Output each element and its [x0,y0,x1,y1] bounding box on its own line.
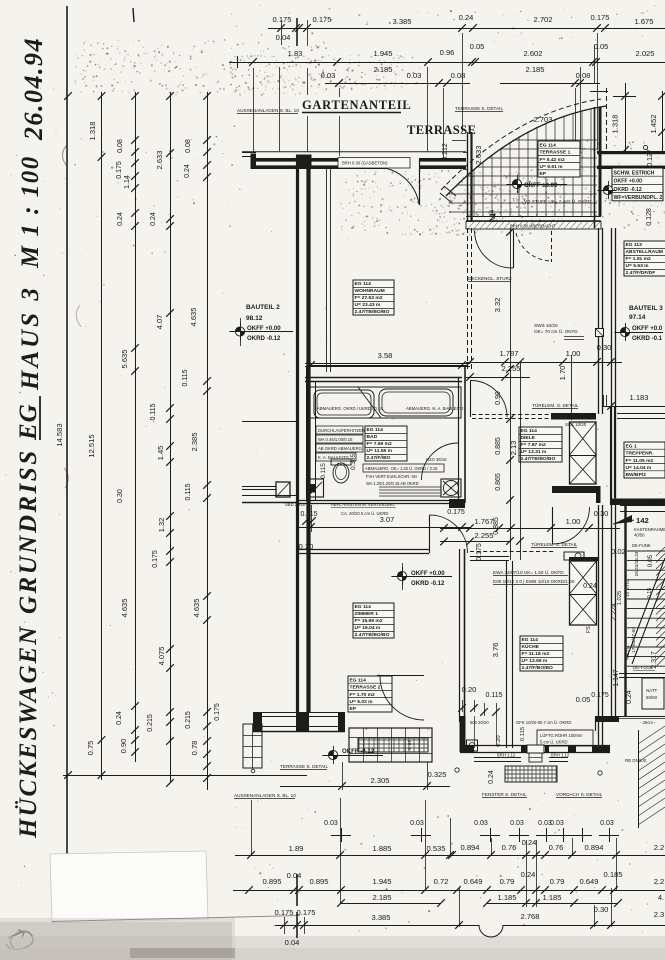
svg-text:NATT: NATT [646,688,658,693]
svg-text:OKRD -0.12: OKRD -0.12 [411,580,445,587]
svg-text:GFK 10/20-05 7 cm Ü. OKRD: GFK 10/20-05 7 cm Ü. OKRD [516,720,571,725]
bath left lining [306,366,308,500]
window kastenrahmen lines [620,505,665,507]
svg-text:ZIMMER 1: ZIMMER 1 [355,611,379,617]
svg-text:26.04.94: 26.04.94 [19,37,48,141]
svg-text:FENSTER S. DETAIL: FENSTER S. DETAIL [482,792,527,797]
svg-text:2.47/F/DF/DF: 2.47/F/DF/DF [626,270,656,276]
left dimension chain 4.07 [170,92,172,783]
svg-text:0.04: 0.04 [276,33,291,42]
terrace OKFF symbol [512,179,521,188]
garden boundary line top right [590,91,608,93]
paper wrinkle arcs [63,146,67,165]
svg-text:0.24: 0.24 [488,770,495,784]
bath install band [310,387,461,418]
left dimension chain 12.515 [101,92,103,780]
terrace french door solid leaf [513,230,515,268]
svg-text:2.702: 2.702 [533,15,552,24]
svg-text:5 cm Ü. UKRD: 5 cm Ü. UKRD [540,740,568,745]
zimmer right wall corner block [460,716,466,752]
svg-text:3.76: 3.76 [491,643,500,658]
svg-text:2.633: 2.633 [474,145,483,164]
svg-text:1.185: 1.185 [542,893,561,902]
bottom small chain crosses row [331,835,351,837]
svg-text:OKFF ±0.00: OKFF ±0.00 [524,182,558,189]
svg-text:OKFF +0.00: OKFF +0.00 [411,570,445,577]
svg-text:U= 6.02 m: U= 6.02 m [350,699,374,705]
svg-text:0.649: 0.649 [579,877,598,886]
svg-text:0.175: 0.175 [476,543,483,561]
svg-text:0.03: 0.03 [600,820,614,827]
svg-text:WA 0.45/1.00/0.15: WA 0.45/1.00/0.15 [318,437,353,442]
diele room table [519,427,562,462]
svg-text:9 STG.: 9 STG. [625,644,631,660]
zimmer terrace door leaf and arc [377,675,424,677]
svg-text:TERRASSE S. DETAIL: TERRASSE S. DETAIL [280,764,328,769]
svg-text:0.03: 0.03 [474,820,488,827]
svg-text:1.32: 1.32 [157,518,166,533]
svg-text:EP: EP [540,171,547,177]
svg-text:0.115: 0.115 [182,369,189,386]
svg-text:17.60/17.60: 17.60/17.60 [631,627,637,653]
left chains bottom extension [63,775,307,777]
garden door swing arc [385,168,420,204]
svg-text:2.025: 2.025 [635,49,654,58]
svg-text:0.30: 0.30 [597,343,612,352]
svg-text:4.07: 4.07 [155,315,164,330]
svg-text:DECKENGL. STURZ: DECKENGL. STURZ [468,276,512,281]
neighbour wall stub bottom [242,486,276,488]
svg-text:DE-FUGE: DE-FUGE [633,665,653,670]
svg-text:0.78: 0.78 [190,741,199,756]
entrance door [527,745,544,753]
svg-text:BRH 1.12: BRH 1.12 [551,753,570,758]
svg-text:0.115: 0.115 [520,727,526,741]
svg-text:BW/BP/2: BW/BP/2 [626,472,647,478]
zimmer top wall [297,549,429,551]
entrance mat grate hatch [505,766,557,782]
svg-text:3.385: 3.385 [392,17,411,26]
svg-text:97.14: 97.14 [629,314,646,321]
garden door leaf [419,160,421,205]
svg-text:0.885: 0.885 [493,517,500,535]
svg-text:0.175: 0.175 [312,15,331,24]
dim 3.58 line [307,365,466,367]
left exterior wall [296,156,299,713]
svg-text:OKRD -0.1: OKRD -0.1 [632,335,663,342]
svg-text:10 STG.: 10 STG. [625,579,631,597]
radiator box [441,479,461,497]
svg-text:1.147: 1.147 [613,669,620,687]
svg-text:0.24: 0.24 [117,212,124,226]
svg-text:TREPPENR.: TREPPENR. [626,451,655,457]
top extension lines [253,68,255,152]
terrace2 outer border [349,728,432,762]
svg-text:1.70: 1.70 [558,366,567,381]
svg-text:1.767: 1.767 [474,517,493,526]
svg-text:TERRASSE 1: TERRASSE 1 [540,150,571,156]
svg-text:0.05: 0.05 [594,42,609,51]
svg-text:OKFF +0.0: OKFF +0.0 [632,325,663,332]
terrace2 OKFF symbol [328,750,337,759]
terrace2 grid hatch [358,738,428,752]
stair walk line diagonals [627,558,665,657]
svg-text:1.945: 1.945 [372,877,391,886]
terrace curved edge dashed outer [441,99,601,190]
svg-text:12.515: 12.515 [87,434,96,457]
svg-text:AB OKRD ABMAUERG.: AB OKRD ABMAUERG. [318,446,363,451]
window sills bottom [474,757,521,759]
svg-text:2.703: 2.703 [533,115,552,124]
svg-text:0.894: 0.894 [460,843,479,852]
svg-text:AUSSENANLAGEN S. BL. 10: AUSSENANLAGEN S. BL. 10 [237,108,299,113]
stair left wall [624,505,626,716]
svg-text:EG 114: EG 114 [521,428,538,434]
durchlauferhitzer notes [316,426,363,434]
svg-text:DIELE: DIELE [521,435,536,441]
apartment entry door arc [552,507,554,544]
svg-text:0.175: 0.175 [272,15,291,24]
deckengleicher sturz dashed wall [467,228,469,371]
svg-text:2.317: 2.317 [651,651,658,669]
svg-text:0.24: 0.24 [150,212,157,226]
terrace room table [538,141,580,177]
svg-text:4.635: 4.635 [120,598,129,617]
svg-text:0.30: 0.30 [594,509,609,518]
svg-text:0.175: 0.175 [296,908,315,917]
svg-text:1.945: 1.945 [373,49,392,58]
svg-text:FS: FS [586,626,592,633]
dim 2.305 line [280,786,450,788]
stair right hatch [656,547,665,667]
top wall junction block [296,155,312,170]
svg-text:0.02: 0.02 [611,547,626,556]
svg-text:SWS 10/20: SWS 10/20 [534,323,558,328]
svg-text:0.99: 0.99 [495,391,502,405]
svg-text:0.08: 0.08 [576,71,591,80]
svg-text:14.583: 14.583 [55,423,64,446]
svg-text:0.212: 0.212 [442,143,449,161]
svg-text:0.325: 0.325 [427,770,446,779]
svg-text:142: 142 [636,516,649,525]
svg-text:1.00: 1.00 [566,517,581,526]
top dimension chain row C [325,83,470,85]
small fixture box at wall corner [467,740,478,751]
svg-text:2.47/F//BO: 2.47/F//BO [367,455,391,461]
wc fixture [331,459,351,465]
washing machine [307,479,324,497]
svg-text:1.787: 1.787 [499,349,518,358]
dim extension verticals kitchen [474,716,476,745]
left dimension chain 14.583 (outer) [64,92,72,100]
svg-text:1.83: 1.83 [288,49,303,58]
svg-text:EG 114: EG 114 [355,604,372,610]
svg-text:TÜRELEM. S. DETAIL: TÜRELEM. S. DETAIL [531,541,578,547]
stair area bottom walls [595,716,619,722]
svg-text:0.24: 0.24 [521,870,536,879]
bottom dimension chain row E2 [341,903,441,905]
abmauerung ok note [363,464,444,472]
dim chain 2.255 upper [466,377,530,379]
svg-text:0.115: 0.115 [485,692,502,699]
svg-text:0.24: 0.24 [116,711,123,725]
svg-text:2.2: 2.2 [654,843,665,852]
svg-text:60/50: 60/50 [646,695,658,700]
svg-text:BAUTEIL 2: BAUTEIL 2 [246,304,280,311]
kitchen left wall [506,561,508,748]
svg-text:0.115: 0.115 [320,463,327,479]
svg-text:2.47/TB/BO/BO: 2.47/TB/BO/BO [355,632,390,638]
tuerelem dashed wall lower [470,551,554,553]
shaft wall black bar lower [552,486,598,493]
svg-text:0.185: 0.185 [603,870,622,879]
dim chain 1.787 upper [466,362,556,364]
svg-text:2.185: 2.185 [373,65,392,74]
stair steps [627,551,665,666]
svg-text:0.24: 0.24 [626,690,633,704]
svg-text:0.175: 0.175 [274,908,293,917]
svg-text:0.115: 0.115 [300,511,317,518]
svg-text:2.185: 2.185 [372,893,391,902]
neighbour wall stub top [242,421,297,423]
svg-text:0.76: 0.76 [549,843,564,852]
svg-text:4.075: 4.075 [157,646,166,665]
wohnraum wall lining [326,167,328,372]
svg-text:F= 1.70 m2: F= 1.70 m2 [350,692,375,698]
dim line 1.183 [602,406,665,408]
svg-text:0.03: 0.03 [407,71,422,80]
svg-text:2.255: 2.255 [474,531,493,540]
svg-text:ABFL.-KASTEN M. VERTEILUNG: ABFL.-KASTEN M. VERTEILUNG [331,502,395,507]
svg-text:0.24: 0.24 [184,164,191,178]
svg-text:TÜRELEM. S. DETAIL: TÜRELEM. S. DETAIL [532,402,579,408]
svg-text:0.115: 0.115 [150,403,157,420]
svg-text:BAUTEIL 3: BAUTEIL 3 [629,305,663,312]
svg-text:F= 1.91 m2: F= 1.91 m2 [626,256,651,262]
svg-text:0.15: 0.15 [647,588,653,598]
svg-text:3.58: 3.58 [378,351,393,360]
bottom 0.24 connector verticals [526,840,528,907]
svg-text:BRH 0.50 ÜBERDACHT: BRH 0.50 ÜBERDACHT [510,224,556,229]
svg-text:1.00: 1.00 [566,349,581,358]
svg-text:GRUNDRISS: GRUNDRISS [15,448,42,614]
svg-text:0.895: 0.895 [262,877,281,886]
svg-text:0.175: 0.175 [152,550,159,568]
bath door arc [458,443,460,480]
svg-text:EG 114: EG 114 [540,142,557,148]
svg-text:F= 11.18 m2: F= 11.18 m2 [522,651,550,657]
svg-text:0.175: 0.175 [591,692,609,699]
svg-text:FVH VERT.KUHLSCHR. 5N: FVH VERT.KUHLSCHR. 5N [366,474,417,479]
svg-text:2.3: 2.3 [654,910,665,919]
svg-text:WF=VERBUNDPL. 2: WF=VERBUNDPL. 2 [614,195,663,201]
dim chain 2.255 lower [440,541,511,543]
svg-text:0.76: 0.76 [502,843,517,852]
natt block [642,678,664,709]
svg-text:40/50: 40/50 [634,533,645,538]
svg-text:HÜCKESWAGEN: HÜCKESWAGEN [15,625,42,839]
kitchen top boundary lines [470,556,509,558]
bath bottom wall [297,500,465,502]
svg-text:M 1 : 100: M 1 : 100 [17,155,44,269]
left dimension chain 5.635 [135,92,137,762]
svg-text:WOHNRAUM: WOHNRAUM [355,288,385,294]
BRH gasbeton label [338,158,410,169]
svg-text:0.72: 0.72 [434,877,449,886]
svg-text:2.47/TB/BO/BO: 2.47/TB/BO/BO [521,456,556,462]
svg-text:0.04: 0.04 [287,871,302,880]
svg-text:0.75: 0.75 [86,741,95,756]
bottom white patch [50,851,208,923]
zimmer room table [353,603,394,638]
dim line 1.00/0.30 upper [556,362,622,364]
svg-text:EG 114: EG 114 [367,427,384,433]
svg-text:1.45: 1.45 [156,446,165,461]
bottom dimension chain row E [233,890,665,892]
boundary dashed vertical [606,88,608,154]
svg-text:1.885: 1.885 [372,844,391,853]
bath right wall [458,377,460,443]
svg-text:500 20/20: 500 20/20 [470,720,489,725]
tub divider diagonal [358,387,381,418]
svg-text:0.03: 0.03 [410,820,424,827]
svg-text:98.12: 98.12 [246,315,263,322]
svg-text:0.175: 0.175 [214,703,221,721]
svg-text:1.183: 1.183 [629,393,648,402]
left wall bottom end blocks [296,712,309,728]
svg-text:0.215: 0.215 [147,714,154,732]
stair bottom wall [619,673,665,675]
svg-text:SKS 10/20: SKS 10/20 [565,422,587,427]
svg-text:1.452: 1.452 [649,114,658,133]
terrace left wall [467,132,469,228]
stair hall wall bar [611,499,665,506]
right top chain 1.318 [625,83,627,152]
svg-text:ABMAUERG. N. A. BAULEITG.: ABMAUERG. N. A. BAULEITG. [406,406,465,411]
svg-text:2.185: 2.185 [525,65,544,74]
svg-text:U= 13.69 m: U= 13.69 m [522,658,548,664]
treppenraum top wall lines [617,413,665,415]
svg-text:0.03: 0.03 [550,820,564,827]
svg-text:0.20: 0.20 [462,685,477,694]
svg-text:U= 23.43 m: U= 23.43 m [355,302,381,308]
bad room table [365,426,407,461]
svg-text:2.255: 2.255 [501,364,520,373]
top dimension chain row A [268,28,665,30]
bottom dimension chain row F [275,925,479,927]
shaft wall black bar upper [551,413,596,420]
svg-text:RWA 1: RWA 1 [648,500,662,505]
svg-text:U= 5.63 m: U= 5.63 m [626,263,650,269]
svg-text:- 25cm -: - 25cm - [640,720,656,725]
kitchen shaft upper black bar [569,557,598,561]
svg-text:0.535: 0.535 [426,844,445,853]
svg-text:1.14: 1.14 [124,175,131,189]
terrace paving grid [449,108,597,216]
zimmer OKFF symbol [397,571,406,580]
svg-text:0.04: 0.04 [285,938,300,947]
svg-text:EG 1: EG 1 [626,443,637,449]
terrace french door solid arc [475,231,514,269]
svg-text:1.185: 1.185 [497,893,516,902]
svg-text:HAUS 3: HAUS 3 [17,285,44,391]
svg-text:1.89: 1.89 [289,844,304,853]
door niche marker on wall [596,329,604,337]
svg-text:2.385: 2.385 [190,432,199,451]
svg-text:0.08: 0.08 [451,71,466,80]
svg-text:SCHW. ESTRICH: SCHW. ESTRICH [614,170,655,176]
svg-text:0.03: 0.03 [324,820,338,827]
svg-text:0.03: 0.03 [510,820,524,827]
kitchen shaft box with crosses [570,561,597,625]
svg-text:0.24: 0.24 [459,13,474,22]
svg-text:2.224: 2.224 [611,603,618,621]
svg-text:DURCHLAUFERHITZER: DURCHLAUFERHITZER [318,428,365,433]
bottom gray shade [0,936,665,960]
svg-text:0.90: 0.90 [119,739,128,754]
kitchen right wall [598,505,600,745]
svg-text:3.385: 3.385 [371,913,390,922]
terrasse2 room table [348,676,392,712]
svg-text:E00 10/12 2.0 | EWB 10/10 OKRD: E00 10/12 2.0 | EWB 10/10 OKRD/1.00 [493,579,575,584]
dim 3.32 rotated [510,228,512,560]
svg-text:U= 14.04 m: U= 14.04 m [626,465,652,471]
svg-text:0.885: 0.885 [495,437,502,455]
svg-text:TERRASSE S. DETAIL: TERRASSE S. DETAIL [455,106,503,111]
svg-text:4.: 4. [658,893,664,902]
svg-text:0.24: 0.24 [583,583,597,590]
svg-text:2.2: 2.2 [654,877,665,886]
wohnraum room table [353,280,394,315]
svg-text:2.47/TB/BO/BO: 2.47/TB/BO/BO [355,309,390,315]
svg-text:0.30: 0.30 [594,905,609,914]
svg-text:BRH 0.30 (GASBETON): BRH 0.30 (GASBETON) [342,161,388,166]
terrace french door dashed arc [516,233,552,261]
svg-text:0.30: 0.30 [117,489,124,503]
schw estrich OKFF symbol [603,185,612,194]
svg-text:5.635: 5.635 [120,349,129,368]
svg-text:VORDACH S. DETAIL: VORDACH S. DETAIL [556,792,603,797]
svg-text:0.175: 0.175 [447,509,465,516]
svg-text:EG: EG [15,403,42,441]
svg-text:GARTENANTEIL: GARTENANTEIL [302,98,411,112]
svg-text:EP: EP [350,706,357,712]
vordach hatch lower right [638,726,665,825]
svg-text:3.32: 3.32 [493,298,502,313]
right separation wall pair [598,228,600,414]
svg-text:OKFF -0.12: OKFF -0.12 [342,748,375,755]
bauteil 3 OKFF symbol [620,327,629,336]
svg-text:0.08: 0.08 [117,139,124,153]
svg-text:1.025: 1.025 [617,591,623,606]
terrace curved edge [446,106,606,196]
tuerelem dashed wall upper [472,414,551,416]
wohnraum-diele door [470,380,472,417]
svg-text:U= 11.55 m: U= 11.55 m [367,448,393,454]
svg-text:0.05: 0.05 [647,554,654,567]
top wall window band left [242,151,466,153]
svg-text:ABSTELLRAUM: ABSTELLRAUM [626,249,663,255]
terrace bottom wall hatched [466,216,601,218]
svg-text:0.05: 0.05 [576,695,591,704]
svg-text:BRH 1.12: BRH 1.12 [497,753,516,758]
svg-text:ABMAUERG. OKRD / UKRD / 0.15: ABMAUERG. OKRD / UKRD / 0.15 [317,406,383,411]
abstellraum room table [624,241,665,276]
svg-text:U= 13.31 m: U= 13.31 m [521,449,547,455]
svg-text:0.215: 0.215 [185,711,192,729]
svg-text:0.649: 0.649 [463,877,482,886]
svg-text:2.768: 2.768 [520,912,539,921]
